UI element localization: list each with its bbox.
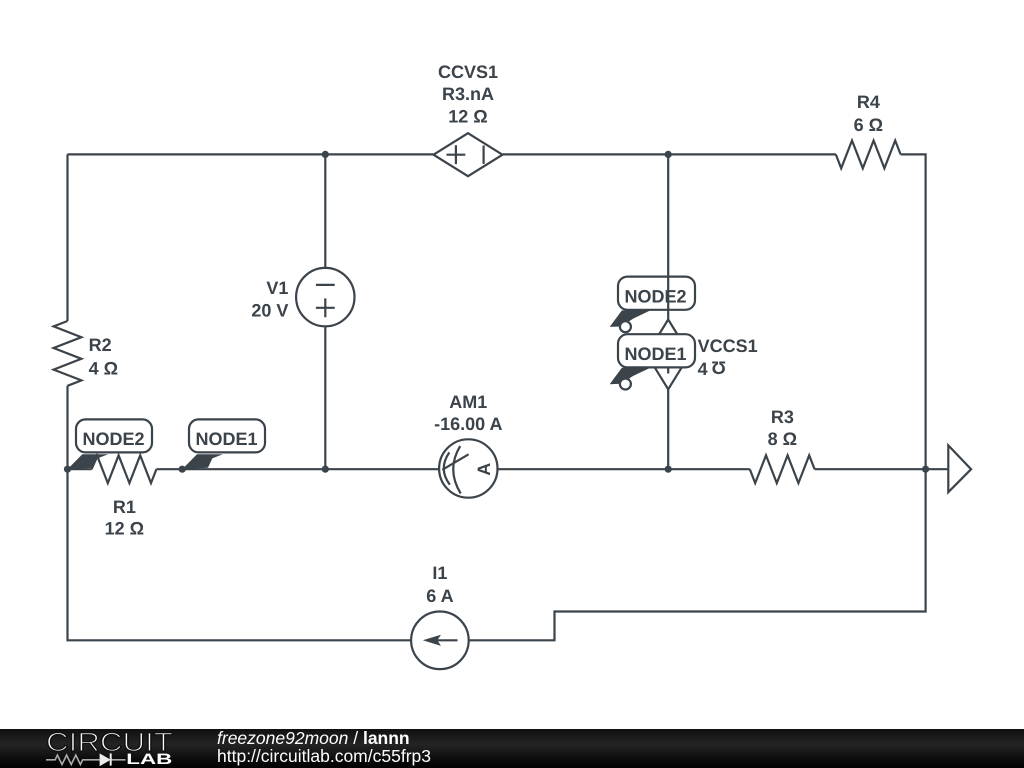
svg-text:12 Ω: 12 Ω (448, 107, 487, 127)
resistor R2 (54, 321, 82, 386)
voltage source V1 (296, 268, 354, 326)
wire top-left horizontal (68, 153, 434, 155)
flag pennant NODE2 (VCCS) (610, 310, 651, 327)
flag pennant NODE1 (VCCS) (610, 368, 651, 385)
svg-text:4: 4 (698, 359, 708, 379)
node V1 bottom (322, 466, 329, 473)
flag terminal circle NODE1 (VCCS) (620, 379, 631, 390)
wire middle row R1 to AM1 (156, 468, 439, 470)
svg-text:R2: R2 (89, 335, 112, 355)
node flag box NODE2 (wire) (76, 419, 152, 452)
node at VCCS top (665, 151, 672, 158)
svg-text:R1: R1 (113, 497, 136, 517)
resistor R4 (836, 141, 901, 169)
flag pennant NODE2 (wire) (68, 454, 109, 469)
svg-text:8 Ω: 8 Ω (768, 429, 797, 449)
wire VCCS branch top (over NODE2 box) (667, 154, 669, 319)
svg-text:20 V: 20 V (251, 301, 288, 321)
wire left side vertical (R2 to bottom) and bottom run to I1 (68, 386, 412, 641)
node at V1 top (322, 151, 329, 158)
output flag triangle (948, 445, 971, 492)
flag terminal circle NODE2 (VCCS) (620, 321, 631, 332)
footer bar (0, 729, 1024, 768)
node right middle (922, 466, 929, 473)
svg-text:6 Ω: 6 Ω (854, 115, 883, 135)
svg-text:6 A: 6 A (426, 586, 453, 606)
wire top-right horizontal (503, 153, 836, 155)
svg-text:V1: V1 (266, 278, 288, 298)
svg-text:-16.00 A: -16.00 A (434, 414, 502, 434)
wire middle row AM1 to R3 (498, 468, 750, 470)
svg-text:R4: R4 (857, 92, 880, 112)
resistor R1 (92, 455, 157, 483)
svg-text:CCVS1: CCVS1 (438, 62, 498, 82)
dependent source VCCS1 diamond (647, 320, 690, 390)
logo resistor-diode doodle (46, 755, 126, 764)
ammeter AM1 (439, 439, 497, 497)
svg-text:12 Ω: 12 Ω (105, 519, 144, 539)
node flag box NODE1 (wire) (189, 419, 265, 452)
footer text (217, 729, 431, 766)
svg-text:NODE1: NODE1 (195, 429, 257, 449)
flag pennant NODE1 (wire) (182, 454, 223, 469)
wire middle row left (68, 468, 92, 470)
wire right side lower loop with jog (469, 469, 926, 640)
dependent source CCVS1 diamond (434, 133, 503, 176)
svg-text:LAB: LAB (126, 751, 172, 768)
wire middle row R3 to right node (815, 468, 926, 470)
node flag box NODE1 (VCCS sense -) (618, 334, 695, 367)
node flag box NODE2 (VCCS sense +) (618, 277, 695, 310)
svg-text:Ω: Ω (711, 357, 725, 377)
svg-text:AM1: AM1 (449, 392, 487, 412)
svg-text:R3: R3 (771, 407, 794, 427)
svg-text:I1: I1 (432, 563, 447, 583)
wire stub to output flag (926, 468, 949, 470)
current source I1 (411, 612, 469, 670)
wire R4 to right corner and down (901, 154, 926, 469)
svg-text:NODE2: NODE2 (82, 429, 144, 449)
svg-text:4 Ω: 4 Ω (89, 358, 118, 378)
wire V1 branch bottom (324, 326, 326, 469)
wire VCCS branch bottom (667, 389, 669, 469)
node left middle (64, 466, 71, 473)
resistor R3 (750, 455, 815, 483)
node R1 right (179, 466, 186, 473)
svg-text:R3.nA: R3.nA (442, 84, 494, 104)
svg-text:NODE2: NODE2 (624, 287, 686, 307)
svg-text:NODE1: NODE1 (624, 344, 686, 364)
svg-text:A: A (474, 463, 494, 476)
VCCS1 arrow (667, 341, 669, 374)
svg-text:VCCS1: VCCS1 (698, 336, 758, 356)
wire left side vertical (top to R2) (66, 154, 68, 321)
node VCCS bottom (665, 466, 672, 473)
wire V1 branch top (324, 154, 326, 268)
